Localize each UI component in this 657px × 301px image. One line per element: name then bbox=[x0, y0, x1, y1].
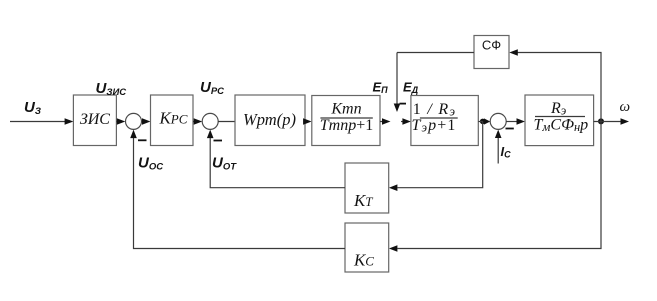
block КТП thyristor converter bbox=[312, 96, 380, 146]
minus sign at junction 3 bbox=[506, 128, 514, 130]
wire СФ output to Ед line bbox=[397, 52, 474, 54]
svg-text:КТ: КТ bbox=[353, 191, 373, 210]
block Rэ motor mechanical part bbox=[525, 95, 594, 146]
wire Wрт to КТП bbox=[303, 118, 312, 125]
summing junction 1 bbox=[126, 113, 142, 129]
wire tap to summing junction 3 bbox=[478, 118, 490, 124]
minus sign at junction 2 bbox=[214, 140, 223, 142]
svg-text:Тэр+1: Тэр+1 bbox=[412, 117, 457, 135]
wire Iс disturbance input bbox=[495, 130, 502, 164]
svg-text:Ттпр+1: Ттпр+1 bbox=[320, 117, 373, 134]
svg-text:КРС: КРС bbox=[159, 109, 188, 128]
wire EMF node into block 1/Rэ bbox=[401, 118, 411, 125]
block КС speed feedback bbox=[345, 223, 389, 272]
block КРС bbox=[151, 95, 194, 146]
block Wрт(р) current regulator bbox=[235, 95, 305, 146]
output node dot bbox=[598, 118, 604, 124]
wire КРС to summing junction 2 bbox=[193, 118, 202, 125]
wire КТ output to junction 2 bbox=[207, 130, 345, 188]
wire node down to КС input bbox=[389, 121, 601, 251]
label Iс bbox=[501, 144, 512, 160]
minus sign at junction 1 bbox=[138, 139, 147, 141]
wire node up to СФ feedback bbox=[509, 49, 601, 121]
wire Ед vertical from СФ line down bbox=[394, 53, 401, 113]
label Еп bbox=[373, 80, 389, 96]
svg-text:ЗИС: ЗИС bbox=[80, 111, 110, 128]
wire out of КТП to EMF node bbox=[380, 118, 391, 125]
label Uос bbox=[138, 155, 163, 173]
svg-text:ω: ω bbox=[620, 99, 631, 115]
wire input Uз with arrow into ЗИС bbox=[10, 118, 73, 125]
svg-text:Wрт(р): Wрт(р) bbox=[243, 110, 296, 129]
wire current tap down to КТ input bbox=[389, 121, 483, 191]
wire junction 1 to КРС bbox=[142, 118, 151, 125]
block КТ current feedback bbox=[345, 163, 389, 213]
label Ед bbox=[403, 80, 419, 96]
summing junction 3 bbox=[490, 113, 506, 129]
svg-text:КС: КС bbox=[353, 250, 374, 269]
label omega bbox=[620, 99, 631, 115]
svg-text:ТмСФнр: ТмСФнр bbox=[534, 117, 589, 135]
svg-text:1 / Rэ: 1 / Rэ bbox=[413, 101, 457, 119]
block ЗИС bbox=[73, 95, 116, 146]
svg-text:Ктп: Ктп bbox=[330, 101, 361, 118]
svg-text:Rэ: Rэ bbox=[550, 100, 567, 118]
summing junction 2 bbox=[202, 113, 218, 129]
wire junction 2 to Wрт bbox=[218, 121, 235, 123]
wire output omega bbox=[594, 118, 629, 125]
block 1/Rэ armature circuit bbox=[411, 96, 478, 146]
junction dot current feedback tap bbox=[480, 119, 486, 125]
label Uрс bbox=[200, 79, 224, 97]
label Uз bbox=[24, 99, 41, 117]
block СФ bbox=[474, 36, 509, 69]
wire КС output to junction 1 bbox=[130, 130, 345, 249]
label Uот bbox=[212, 155, 237, 173]
wire ЗИС to summing junction 1 bbox=[116, 118, 125, 125]
svg-text:СФ: СФ bbox=[482, 38, 501, 53]
wire junction 3 to Rэ block bbox=[506, 118, 525, 125]
label Uзис bbox=[96, 80, 127, 98]
minus sign at Ед input bbox=[400, 103, 407, 105]
